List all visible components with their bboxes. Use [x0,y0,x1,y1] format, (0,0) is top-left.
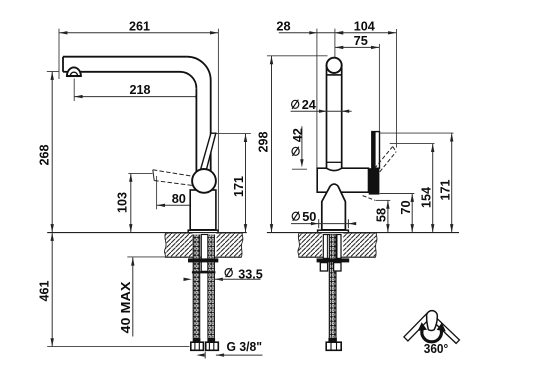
dimension 104 [335,19,396,148]
dimension Ø 50 [291,209,356,228]
base cone + cylinder front [322,184,346,230]
wire: bottom reference line (hose ends) [47,346,189,348]
svg-text:40 MAX: 40 MAX [118,281,133,333]
handle upright front [372,132,380,169]
swivel icon left bar [404,313,431,341]
mounting stud side [201,235,208,272]
deck surface line side [47,232,247,234]
base plate side [188,230,218,233]
svg-text:24: 24 [302,97,317,112]
wire: extension line spout underside (268 dim) [47,71,59,73]
dimension 28 [276,19,343,35]
base plate front [318,230,349,233]
dimension Ø 42 (leader down) [290,126,307,169]
svg-text:75: 75 [354,33,368,48]
supply hose front (braided) [329,235,336,338]
svg-text:70: 70 [398,200,413,214]
dimension Ø 24 [291,97,352,113]
countertop side (hatched) [164,232,242,257]
nut tab left [320,263,327,271]
hose end cap left [193,338,201,342]
svg-text:50: 50 [302,209,316,224]
dimension 103 (vertical) [114,173,152,232]
dimension 58 (vertical) [374,200,391,232]
handle phantom tilted (dashed) [363,147,397,201]
dimension 70 (vertical) [380,194,415,233]
dimension 171 side (vertical) [212,134,251,233]
dimension 268 (vertical) [37,72,54,233]
svg-text:171: 171 [231,176,246,197]
dimension 461 (vertical) [37,233,54,347]
svg-text:103: 103 [114,192,129,213]
dimension 80 [157,176,204,210]
hose fitting left (G3/8) [191,342,204,350]
svg-text:218: 218 [130,82,151,97]
dimension 261 [59,19,218,35]
dimension 75 [335,33,380,131]
svg-text:G 3/8": G 3/8" [227,339,263,354]
wire: extension line left of spout tip (261 dim) [58,29,60,79]
handle mount block front (black) [369,168,380,194]
mounting nut side [188,258,218,262]
svg-text:268: 268 [37,145,52,166]
mounting nut front [317,258,350,262]
hose fitting right (G3/8) [206,342,219,350]
countertop front (hatched) [298,232,377,257]
spout end cap circle (front) [327,58,342,73]
svg-text:154: 154 [418,186,433,208]
svg-text:171: 171 [437,180,452,201]
lower clamp bar side [192,271,216,273]
body cylinder side [190,190,216,230]
swivel icon rotation arrow [422,330,442,342]
dimension 298 (vertical) [256,56,274,233]
aerator under spout tip [67,67,81,76]
svg-text:28: 28 [276,19,290,34]
deck bottom line side [127,256,166,258]
svg-text:104: 104 [354,19,376,34]
wire: extension line right (261 dim, base plate edge) [217,29,219,230]
label G 3/8" with leader [196,339,262,359]
swivel icon lever knob [427,311,438,331]
collar body front [317,168,368,192]
svg-text:261: 261 [129,19,150,34]
spout body (side view faucet) [63,57,211,176]
svg-text:58: 58 [374,208,389,222]
wire: extension line 298 top [267,55,328,57]
lever handle side (solid, upright) [201,133,216,173]
dimension 40 MAX (leader) [118,257,135,336]
hose fitting front [326,342,341,350]
nut tab right [334,263,341,271]
hose end cap front [328,338,337,342]
dimension 154 (vertical) [390,144,435,233]
svg-text:360°: 360° [424,341,449,356]
swivel icon right bar [428,313,459,343]
deck surface line front [267,232,459,234]
mounting stud front [323,235,341,259]
supply hose right (braided) [208,235,215,338]
svg-text:298: 298 [256,132,271,153]
svg-text:42: 42 [290,128,305,142]
svg-text:33.5: 33.5 [238,266,263,281]
hose end cap right [207,338,215,342]
cap collar line [327,74,342,76]
dimension 171 front (vertical) [380,133,454,232]
dimension 218 [74,79,204,102]
supply hose left (braided) [193,235,200,338]
deck bottom line front [299,256,376,258]
svg-text:80: 80 [172,191,186,206]
ball joint [192,169,216,193]
riser pipe front [327,65,342,170]
wire: extension line center (28 dim) [334,29,336,58]
lever handle side (phantom, horizontal) [153,170,194,186]
svg-text:461: 461 [37,281,52,302]
dimension Ø 33.5 [184,266,263,281]
wire: extension line collar left (28 dim) [316,29,318,168]
